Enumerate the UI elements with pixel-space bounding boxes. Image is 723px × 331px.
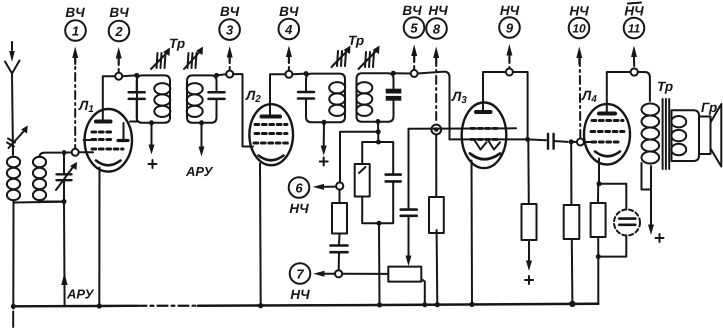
plus sign under output transformer: [656, 234, 664, 242]
wire junction to resistor R5: [527, 139, 530, 204]
wire resistor R5 to supply: [528, 240, 530, 262]
ground bus solid left segment: [13, 305, 136, 308]
test point 9 circle: [499, 17, 520, 38]
wire node 7 to volume potentiometer: [342, 273, 388, 275]
wire anode of Л1 up to node B: [103, 76, 115, 119]
secondary winding of output transformer: [671, 116, 686, 155]
resistor R4: [429, 197, 444, 233]
dash-dot lead from test point 2 to node B: [118, 58, 120, 73]
arrow to supply under output transformer: [648, 225, 654, 236]
wire jack X1 to resistor R4: [435, 134, 437, 197]
electrolytic capacitor C6: [614, 210, 640, 236]
wire detector takeoff to node 6 branch: [340, 132, 378, 183]
svg-text:Л2: Л2: [245, 88, 261, 105]
cathode of tube Л3: [470, 154, 500, 160]
arrow on AGC feed under tank2: [199, 147, 205, 157]
tank circuit 1 loop: [137, 75, 170, 122]
tilde mark above label of test point 11: [628, 3, 641, 4]
svg-text:1: 1: [72, 24, 79, 39]
junction grid resistor R6 tap: [569, 139, 574, 144]
node for test point 6: [336, 182, 343, 189]
arrow into test point 10: [576, 47, 582, 65]
test point 1 circle: [65, 20, 86, 41]
wire coil L1 bottom to ground bus: [12, 200, 14, 306]
arrow to supply under tank1: [149, 145, 155, 155]
core of output transformer: [663, 99, 670, 169]
wire stub below ground bus left end: [12, 306, 14, 308]
svg-text:8: 8: [433, 22, 441, 37]
svg-text:Л1: Л1: [78, 98, 94, 115]
screen grid electrode inside tube Л1: [118, 123, 128, 141]
wire coil L2 bottom to junction: [40, 200, 65, 202]
test point 3 circle: [219, 19, 240, 40]
anode of tube Л3: [476, 110, 491, 114]
loudspeaker driver box: [699, 117, 711, 155]
junction tank1 bottom: [149, 120, 154, 125]
svg-text:ВЧ: ВЧ: [279, 4, 299, 19]
junction coil L2 top / capacitor C1: [62, 150, 67, 155]
junction tank2 bottom: [199, 120, 204, 125]
dash-dot lead from test point 11 to node H: [633, 62, 635, 67]
svg-text:ВЧ: ВЧ: [220, 4, 240, 19]
capacitor C4 on wiper branch: [401, 210, 417, 216]
wire cathode of Л2 to ground bus: [259, 164, 262, 306]
wire node F to anode load branch: [513, 72, 528, 139]
wire node E to diode line of tube Л3: [418, 72, 450, 140]
node A (test point 1 tap): [72, 149, 79, 156]
node G (test point 10 tap): [577, 139, 584, 146]
arrow into test point 2: [116, 47, 122, 64]
wire node B to tank1 top: [122, 74, 137, 77]
wire junction down from takeoff to loop top: [377, 132, 379, 142]
wire wiper branch down to potentiometer: [408, 216, 410, 257]
wire coil L2 top to node A: [40, 153, 61, 157]
antenna W1: [5, 42, 20, 74]
wire tank2 top to node C: [217, 74, 227, 75]
svg-text:3: 3: [226, 23, 234, 38]
svg-text:Гр: Гр: [701, 100, 717, 115]
plus sign under R5: [525, 276, 533, 284]
wire node C to grid of tube Л2: [233, 74, 253, 146]
node C (test point 3 tap): [226, 71, 233, 78]
R2 C3 parallel loop: [362, 142, 393, 223]
tube Л3 envelope: [462, 103, 507, 169]
wire cathode of Л3 to ground bus: [471, 161, 474, 305]
trimmer mark left of IF transformer 2: [332, 46, 351, 68]
node B (test point 2 tap): [115, 73, 122, 80]
wire AGC line down from junction: [63, 202, 66, 306]
junction detector takeoff: [376, 129, 381, 134]
wire junction to electrolytic C6: [599, 184, 626, 210]
tube Л4 envelope: [584, 104, 630, 164]
test point 10 circle: [569, 18, 590, 39]
arrow to supply under R5: [526, 261, 532, 272]
arrow into test point 11: [631, 46, 637, 63]
wire tank2 bottom AGC feed: [201, 123, 203, 148]
diagonal mark in resistor R2: [359, 167, 366, 173]
junction tank2 top: [214, 73, 219, 78]
junction tank4 bottom: [376, 119, 381, 124]
test point 11 circle: [624, 18, 645, 39]
jack X1 (test point 8 socket): [431, 125, 441, 135]
test point 8 circle: [426, 18, 447, 39]
junction tank3 bottom: [322, 120, 327, 125]
wire cathode of Л4 down: [598, 159, 600, 184]
svg-text:2: 2: [114, 24, 123, 39]
arrow to supply under tank3: [321, 146, 327, 156]
resistor R2: [355, 164, 370, 197]
diode plate 2 of Л3: [489, 141, 501, 150]
junction tank4 top: [391, 71, 396, 76]
ground bus dash-dot segment: [137, 305, 199, 307]
capacitor of tank 2: [209, 92, 225, 99]
tube Л2 envelope: [249, 104, 293, 165]
loudspeaker cone: [711, 104, 722, 167]
dash-dot lead from test point 1 to node A: [74, 55, 76, 149]
wire node G to grid of tube Л4: [584, 141, 592, 143]
wire node D to tank3 top: [292, 73, 306, 76]
coil of tank 1: [154, 83, 170, 117]
svg-text:9: 9: [506, 21, 514, 36]
wire cathode network to ground bus corner: [597, 257, 599, 304]
resistor R5: [522, 204, 537, 240]
wire junction to node A: [64, 151, 72, 153]
test point 7 circle: [290, 263, 311, 284]
arrow into test point 1: [72, 47, 78, 65]
capacitor of tank 3: [298, 92, 314, 99]
capacitor C3: [386, 175, 401, 182]
junction ground bus at cathode Л3: [469, 302, 474, 307]
svg-text:7: 7: [296, 267, 304, 282]
primary winding of output transformer: [642, 104, 660, 164]
junction tank1 top: [134, 73, 139, 78]
tank circuit 3 loop: [306, 74, 345, 123]
wire tank4 bottom down: [377, 122, 379, 132]
svg-text:5: 5: [410, 21, 418, 36]
wire potentiometer right lead to ground bus: [421, 279, 425, 305]
capacitor of tank 4 (padder, heavy plates): [386, 89, 402, 101]
test point 5 circle: [404, 17, 425, 38]
trimmer mark right of IF transformer 2: [359, 46, 380, 70]
node H (test point 11 tap): [631, 68, 638, 75]
resistor R6: [564, 205, 580, 239]
junction ground bus at potentiometer lead: [422, 302, 427, 307]
dash-dot lead from test point 9 to node F: [508, 57, 510, 68]
junction cathode network top: [597, 181, 602, 186]
svg-text:НЧ: НЧ: [569, 4, 589, 19]
wire tank4 top to node E: [393, 72, 410, 74]
diode line of tube Л3: [450, 138, 528, 140]
wire tank1 bottom to supply: [151, 123, 153, 146]
tank circuit 4 loop: [357, 73, 394, 122]
wire junction to node G: [571, 141, 577, 143]
capacitor of tank 1: [129, 92, 145, 99]
arrow into test point 7: [313, 271, 335, 277]
wire node A to grid of tube Л1: [79, 151, 93, 153]
cathode of tube Л1: [96, 161, 121, 166]
svg-text:НЧ: НЧ: [428, 3, 448, 18]
node D (test point 4 tap): [285, 71, 292, 78]
wire loop bottom to ground bus: [378, 223, 381, 305]
wire junction to coupling capacitor C5: [528, 138, 546, 141]
svg-text:НЧ: НЧ: [290, 287, 310, 302]
wire electrolytic C6 bottom to junction: [598, 236, 626, 257]
coil of tank 4: [356, 82, 372, 116]
grid rows of tube Л3: [471, 128, 497, 139]
wire junction down to resistor R6: [570, 142, 572, 205]
plus sign under tank1: [149, 160, 157, 168]
junction R2C3 loop bottom: [377, 221, 382, 226]
arrow into test point 3: [227, 46, 233, 63]
wire primary bottom to supply: [650, 166, 652, 226]
svg-text:АРУ: АРУ: [66, 287, 95, 302]
svg-text:НЧ: НЧ: [500, 3, 520, 18]
arrow into test point 9: [506, 44, 512, 62]
svg-text:НЧ: НЧ: [624, 4, 644, 19]
junction ground bus at cathode Л2: [258, 303, 263, 308]
node for test point 7: [335, 270, 342, 277]
wire anode of Л2 up to node D: [270, 74, 285, 114]
cathode of tube Л4: [595, 152, 620, 157]
capacitor C2: [331, 246, 348, 253]
wire tank3 bottom to supply: [323, 122, 325, 147]
arrow into test point 8: [433, 47, 439, 65]
arrow into test point 4: [286, 46, 292, 64]
screen grid lead of tube Л1: [130, 75, 137, 121]
tank circuit 2 loop: [187, 75, 217, 122]
wire antenna lead down: [12, 74, 13, 156]
dash-dot lead from test point 3 to node C: [229, 57, 231, 71]
variable capacitor C1: [56, 153, 77, 202]
svg-text:Тр: Тр: [657, 79, 673, 94]
svg-text:ВЧ: ВЧ: [109, 5, 129, 20]
resistor R7 cathode bias: [591, 184, 606, 257]
svg-text:ВЧ: ВЧ: [65, 5, 85, 20]
secondary loop of output transformer: [672, 110, 700, 161]
trimmer mark right of IF transformer 1: [184, 47, 203, 70]
junction cathode network bottom: [596, 254, 601, 259]
junction tank3 top: [304, 71, 309, 76]
tube Л1 envelope: [85, 109, 132, 172]
coupling capacitor C5: [548, 134, 554, 149]
junction ground bus at cathode Л1: [97, 303, 102, 308]
coil of tank 2: [187, 83, 203, 117]
test point 4 circle: [279, 19, 300, 40]
svg-text:11: 11: [628, 22, 641, 36]
wire resistor R4 to ground bus: [436, 230, 439, 305]
dash-dot lead from test point 8 to jack X1: [435, 58, 437, 124]
wire anode of Л3 up to node F: [483, 72, 506, 110]
wire primary bottom jog: [642, 163, 652, 190]
dash-dot lead from test point 5 to node E: [413, 56, 415, 70]
coil L2 secondary winding: [33, 157, 46, 200]
grid rows of tube Л2: [254, 125, 288, 144]
cathode of tube Л2: [259, 156, 284, 161]
anode of tube Л1: [96, 120, 111, 124]
wire node H to output transformer primary: [638, 72, 650, 101]
dash-dot lead from test point 4 to node D: [288, 57, 290, 71]
wire anode of Л4 up to node H: [607, 72, 631, 112]
coil of tank 3: [329, 82, 345, 116]
svg-text:Тр: Тр: [169, 36, 185, 51]
anode of tube Л2: [262, 115, 281, 119]
wiper arrow of potentiometer R3: [406, 256, 412, 267]
junction anode load of Л3: [525, 137, 530, 142]
wire capacitor C5 to junction grid Л4: [554, 140, 568, 143]
resistor R1: [332, 190, 347, 245]
junction ground bus at resistor R6: [569, 301, 575, 307]
arrow into test point 6: [313, 184, 336, 190]
wire cathode of Л1 to ground bus: [98, 168, 100, 307]
arrow into test point 5: [411, 45, 417, 63]
junction R2C3 loop top: [376, 140, 381, 145]
svg-text:4: 4: [284, 22, 293, 37]
node F (test point 9 tap): [506, 69, 513, 76]
svg-text:НЧ: НЧ: [289, 201, 309, 216]
svg-text:10: 10: [572, 22, 586, 36]
anode of tube Л4: [599, 112, 615, 116]
junction ground bus at coil L1: [11, 304, 16, 309]
wire input bottom rail: [13, 201, 64, 204]
test point 2 circle: [109, 21, 130, 42]
coil L1 antenna winding: [7, 157, 20, 200]
svg-text:Л3: Л3: [451, 89, 467, 106]
test point 6 circle: [289, 177, 310, 198]
grid stub inside tube Л1: [84, 139, 92, 141]
node E (test point 5 tap): [411, 70, 418, 77]
diode plate 1 of Л3: [475, 141, 487, 150]
junction ground bus at detector loop: [377, 302, 382, 307]
junction capacitor C1 bottom: [62, 199, 67, 204]
potentiometer R3 body: [388, 267, 421, 282]
svg-text:Л4: Л4: [581, 88, 597, 105]
svg-text:ВЧ: ВЧ: [402, 3, 422, 18]
grid rows of tube Л1: [92, 132, 123, 149]
wire resistor R6 to ground bus: [571, 239, 574, 304]
wire grid line of Л3 to wiper branch: [409, 128, 517, 209]
coupling adjust arrow of antenna coil: [7, 126, 28, 149]
dash-dot lead from test point 10 to node G: [579, 58, 582, 138]
plus sign under tank3: [320, 158, 328, 166]
svg-text:6: 6: [295, 181, 303, 196]
trimmer mark left of IF transformer 1: [151, 48, 170, 70]
junction ground bus at resistor R4: [435, 302, 440, 307]
svg-text:АРУ: АРУ: [185, 164, 214, 179]
arrow on AGC line: [61, 273, 67, 286]
wire capacitor C2 to node 7: [338, 252, 340, 270]
grid rows of tube Л4: [591, 121, 624, 143]
ground bus main segment: [198, 304, 598, 306]
